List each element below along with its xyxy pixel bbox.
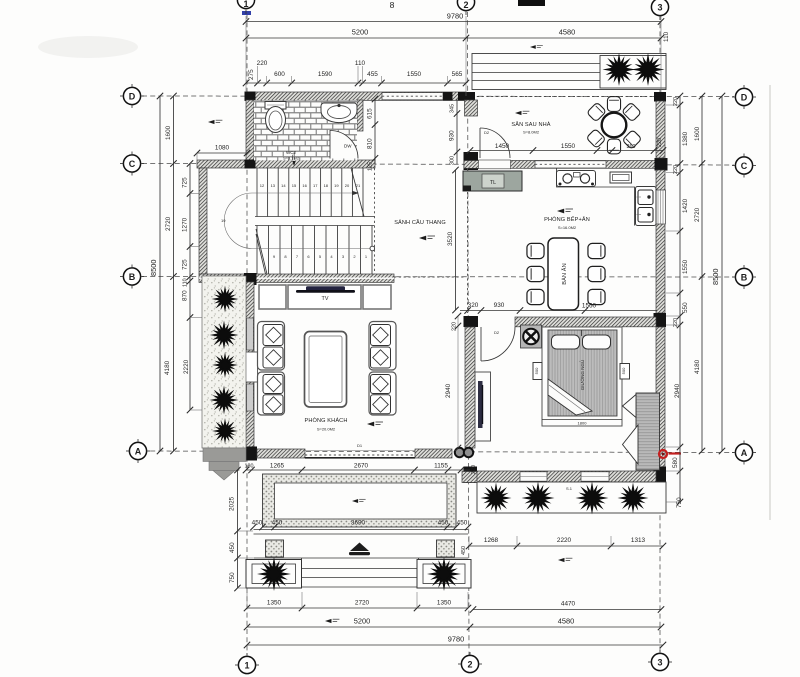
arrow hall — [419, 236, 435, 241]
dim 1450/1550/360/220 yard — [467, 138, 666, 154]
svg-text:2940: 2940 — [445, 383, 452, 398]
yard chair SE — [622, 130, 642, 150]
axis circle A right — [732, 441, 756, 465]
svg-text:DW: DW — [344, 144, 352, 149]
svg-text:4180: 4180 — [164, 360, 171, 375]
counter edge — [557, 169, 635, 226]
svg-text:300: 300 — [450, 156, 456, 165]
plant s2 — [519, 479, 557, 517]
svg-text:A: A — [135, 447, 142, 457]
pier C-grid3 — [655, 158, 668, 171]
TV console left cabinet — [259, 285, 286, 309]
red survey marker — [659, 450, 681, 458]
axis circle D left — [120, 84, 144, 108]
svg-text:WC2: WC2 — [286, 150, 296, 155]
sink WC — [321, 103, 357, 123]
window bedroom south 1 — [520, 472, 547, 481]
axis circle 1 top — [237, 0, 254, 14]
svg-text:1080: 1080 — [215, 145, 230, 152]
svg-text:1590: 1590 — [318, 71, 333, 78]
svg-text:220: 220 — [452, 322, 458, 331]
arrow yard — [515, 111, 529, 115]
svg-text:320: 320 — [468, 302, 479, 309]
svg-text:A: A — [741, 448, 748, 458]
wall C band left (under WC / bump-out top) — [197, 160, 375, 168]
arrow bottom right — [558, 558, 572, 562]
sofa left 1 — [258, 322, 285, 371]
svg-text:1600: 1600 — [694, 126, 701, 141]
svg-text:1600: 1600 — [165, 125, 172, 140]
svg-text:1: 1 — [244, 661, 249, 671]
svg-text:5200: 5200 — [352, 28, 368, 37]
door D2 yard leaf and arc — [480, 128, 510, 158]
stair upper flight treads — [257, 168, 363, 217]
divider dashed stairs/hall — [374, 168, 376, 274]
plant w1 — [209, 283, 240, 314]
svg-text:8500: 8500 — [149, 260, 158, 276]
porch planter left — [246, 560, 302, 589]
sofa right 2 — [369, 372, 396, 415]
column circles at A/grid2 — [455, 448, 473, 457]
coffee table — [305, 332, 347, 408]
axis circle C right — [732, 154, 756, 178]
svg-text:930: 930 — [494, 302, 505, 309]
svg-text:580: 580 — [672, 457, 679, 468]
svg-text:750: 750 — [676, 497, 683, 508]
dim 8500 right — [711, 93, 725, 454]
svg-text:500: 500 — [534, 367, 539, 374]
svg-text:725: 725 — [182, 177, 189, 188]
svg-text:PHÒNG KHÁCH: PHÒNG KHÁCH — [305, 417, 348, 424]
svg-text:S=8.0M2: S=8.0M2 — [523, 130, 540, 135]
svg-text:2670: 2670 — [354, 463, 369, 470]
svg-text:8: 8 — [390, 0, 395, 10]
svg-text:12: 12 — [260, 183, 265, 188]
dim 1080 — [194, 145, 250, 161]
svg-text:110: 110 — [663, 31, 670, 42]
svg-text:1: 1 — [243, 0, 248, 9]
svg-text:1550: 1550 — [682, 259, 689, 274]
svg-text:110: 110 — [183, 278, 189, 287]
plant porch left — [254, 554, 293, 593]
TV console right cabinet — [363, 285, 391, 309]
svg-text:110: 110 — [355, 60, 366, 67]
divider dashed at B — [394, 276, 466, 278]
arrow terrace — [530, 45, 543, 49]
arrow kitchen — [557, 209, 573, 214]
pier bedroom NW — [464, 316, 479, 327]
steps between planters — [302, 558, 419, 587]
svg-text:20: 20 — [345, 183, 350, 188]
entry steps grey SW corner — [203, 448, 246, 480]
dim 1350/2720/1350 — [244, 592, 471, 611]
axis circle B left — [120, 265, 144, 289]
bedroom north wall — [515, 317, 656, 327]
plant s4 — [615, 480, 651, 516]
extension lines top — [246, 16, 661, 96]
svg-text:C: C — [741, 161, 748, 171]
svg-text:220: 220 — [657, 138, 663, 147]
yard chair top — [607, 97, 620, 112]
svg-text:450: 450 — [272, 520, 283, 527]
svg-text:9780: 9780 — [448, 635, 464, 644]
window W living west lower — [247, 384, 254, 411]
svg-text:1380: 1380 — [682, 131, 689, 146]
toilet WC — [265, 102, 286, 133]
planter strip south — [477, 482, 666, 513]
bed pillows — [552, 330, 611, 349]
svg-text:D1: D1 — [357, 443, 363, 448]
svg-text:2720: 2720 — [165, 216, 172, 231]
porch step lines — [254, 530, 469, 559]
sill box west wall — [244, 352, 258, 382]
sofa right 1 — [369, 322, 396, 371]
svg-text:450: 450 — [252, 520, 263, 527]
axis circle 1 bottom — [235, 653, 259, 674]
bedroom TV cabinet — [475, 372, 491, 441]
bed foot line — [542, 419, 622, 421]
arrow WC entry — [292, 155, 295, 166]
plant w3 — [210, 350, 240, 380]
svg-text:3: 3 — [657, 3, 662, 13]
wall B band (bump-out bottom + living top) — [199, 274, 394, 282]
scan streak right — [769, 85, 771, 520]
bed blanket fold — [548, 379, 592, 415]
svg-text:1313: 1313 — [631, 537, 646, 544]
svg-text:2025: 2025 — [229, 496, 236, 511]
pier D window jamb — [443, 92, 453, 101]
svg-text:220: 220 — [673, 318, 679, 327]
svg-text:8500: 8500 — [711, 269, 720, 285]
svg-text:S.1: S.1 — [566, 486, 573, 491]
sofa left 2 — [258, 372, 285, 415]
svg-text:S=20.0M2: S=20.0M2 — [317, 427, 336, 432]
cooktop — [557, 171, 596, 187]
svg-text:450: 450 — [438, 520, 449, 527]
svg-text:21: 21 — [356, 183, 361, 188]
pier D-grid2 — [458, 92, 475, 101]
divider dashed hall/kitchen grid2 — [467, 168, 469, 313]
WC door leaf and arc — [330, 130, 358, 159]
pier B-grid1 — [244, 273, 257, 285]
svg-text:2220: 2220 — [183, 359, 190, 374]
TV console middle — [288, 285, 361, 309]
svg-text:BÀN ĂN: BÀN ĂN — [561, 263, 568, 285]
svg-text:360: 360 — [627, 144, 636, 150]
axis circle D right — [732, 85, 756, 109]
stair walk line — [224, 191, 374, 251]
wall C band right (kitchen north) — [464, 161, 666, 169]
svg-text:125: 125 — [368, 162, 374, 171]
wall D band (north wall WC) — [246, 92, 466, 100]
svg-text:D: D — [129, 92, 136, 102]
svg-text:345: 345 — [450, 104, 456, 113]
wall A band living right part — [415, 449, 452, 458]
door D2 yard opening — [479, 160, 511, 169]
grid line D horizontal — [142, 95, 734, 98]
plant s1 — [478, 480, 514, 516]
dim 4580 bottom — [470, 617, 664, 631]
svg-text:5200: 5200 — [354, 617, 370, 626]
fridge TL — [463, 171, 522, 191]
svg-text:17: 17 — [313, 183, 318, 188]
svg-text:3: 3 — [657, 658, 662, 668]
stair tread numbers lower 9-1 — [273, 254, 368, 259]
window kitchen east wall — [655, 190, 665, 224]
dim 615/810/125 — [367, 96, 379, 171]
plant w4 — [207, 383, 240, 416]
svg-text:455: 455 — [367, 71, 378, 78]
east wall grid3 D-C — [656, 101, 665, 158]
porch planter right — [417, 560, 471, 589]
bedroom south wall — [466, 471, 656, 482]
svg-text:725: 725 — [182, 259, 189, 270]
window in wall C kitchen — [535, 161, 606, 168]
dim 9780 top — [243, 12, 664, 25]
svg-text:750: 750 — [229, 572, 236, 583]
dim chain top detail — [243, 60, 469, 86]
svg-text:615: 615 — [367, 108, 374, 119]
svg-text:1350: 1350 — [267, 600, 282, 607]
svg-text:2720: 2720 — [355, 600, 370, 607]
grid line B horizontal — [142, 276, 734, 279]
svg-text:3690: 3690 — [351, 520, 366, 527]
dim left mid chain — [164, 93, 177, 454]
svg-text:D: D — [741, 93, 748, 103]
svg-text:1270: 1270 — [182, 217, 189, 232]
porch pier left — [266, 540, 284, 557]
yard chair SW — [586, 129, 606, 149]
dim porch left chain — [229, 467, 254, 591]
bedside table right — [620, 364, 630, 380]
stair landing lines — [255, 217, 375, 226]
plant porch right — [424, 554, 463, 593]
stair lower break diagonal — [256, 229, 267, 274]
black bar scan artifact top — [518, 0, 545, 6]
living west wall grid1 B-A — [246, 282, 254, 449]
bed frame — [542, 327, 622, 426]
svg-text:2220: 2220 — [557, 537, 572, 544]
scan smudge top-left — [38, 36, 138, 58]
door D1 opening sill lines — [305, 451, 415, 458]
round dining table yard — [602, 113, 627, 138]
east wall grid3 bedroom — [656, 327, 665, 467]
dim right fine chain — [666, 93, 689, 508]
grid line 1 vertical — [246, 14, 248, 655]
svg-text:TL: TL — [490, 180, 496, 186]
stair lower flight treads — [257, 226, 372, 275]
axis circle 3 bottom — [648, 650, 672, 671]
axis circle 2 bottom — [458, 652, 482, 673]
ceiling fan box — [521, 325, 542, 348]
pier grid2 below D — [465, 100, 478, 116]
svg-text:1268: 1268 — [484, 537, 499, 544]
porch slab stippled frame — [263, 474, 457, 527]
svg-text:1800: 1800 — [578, 421, 588, 426]
dim 5200/4580 top — [243, 28, 670, 43]
plant w2 — [207, 318, 240, 351]
svg-text:450: 450 — [457, 520, 468, 527]
svg-text:1550: 1550 — [407, 71, 422, 78]
svg-text:870: 870 — [182, 290, 189, 301]
grid line A horizontal — [142, 451, 734, 453]
svg-text:275: 275 — [248, 69, 255, 80]
svg-text:13: 13 — [271, 183, 276, 188]
svg-text:1420: 1420 — [682, 198, 689, 213]
svg-text:2: 2 — [467, 660, 472, 670]
svg-text:500: 500 — [621, 367, 626, 374]
svg-text:D2: D2 — [494, 330, 500, 335]
WC east wall — [357, 100, 363, 131]
svg-text:4470: 4470 — [561, 601, 576, 608]
svg-text:3520: 3520 — [447, 231, 454, 246]
bed mattress — [548, 330, 617, 416]
svg-text:14: 14 — [281, 183, 286, 188]
yard chair NE — [622, 102, 642, 122]
svg-text:SÂN SAU NHÀ: SÂN SAU NHÀ — [511, 121, 550, 128]
plant yard 1 — [600, 51, 638, 89]
bedroom door D2 leaf and arc — [481, 327, 515, 361]
svg-text:19: 19 — [334, 183, 339, 188]
west wall grid1 D-C — [246, 100, 254, 161]
svg-text:4180: 4180 — [694, 359, 701, 374]
svg-text:C: C — [129, 159, 136, 169]
dim 345/930/300 grid2 — [449, 99, 461, 165]
bedside table left — [533, 363, 542, 380]
pier bedroom SW — [464, 467, 478, 484]
dining table BAN AN — [548, 238, 579, 310]
svg-text:1550: 1550 — [561, 143, 576, 150]
planter strip west — [202, 276, 246, 448]
dining chair R1 — [588, 243, 605, 258]
plant s3 — [573, 479, 611, 517]
dim 3520 stair hall — [447, 167, 459, 313]
pier A-grid1 — [244, 447, 258, 461]
dining chair L2 — [527, 266, 544, 281]
svg-text:2720: 2720 — [694, 207, 701, 222]
blue scan mark — [242, 11, 251, 15]
svg-text:565: 565 — [452, 71, 463, 78]
svg-text:4580: 4580 — [559, 28, 575, 37]
svg-text:810: 810 — [367, 138, 374, 149]
svg-text:600: 600 — [274, 71, 285, 78]
dim 180/1265/2670/1155 — [243, 463, 477, 475]
svg-text:220: 220 — [257, 60, 268, 67]
svg-text:SẢNH CẦU THANG: SẢNH CẦU THANG — [394, 219, 446, 226]
dim left fine chain — [182, 160, 203, 413]
grid line C horizontal — [142, 164, 734, 166]
svg-text:220: 220 — [471, 465, 477, 474]
stair upper break diagonal — [351, 168, 364, 217]
arrow porch — [352, 499, 366, 503]
counter item — [610, 172, 632, 183]
axis circle B right — [732, 265, 756, 289]
svg-text:180: 180 — [245, 464, 254, 470]
dim 1268/2220/1313 — [461, 536, 666, 555]
arrow upper-left — [208, 120, 222, 124]
svg-text:450: 450 — [229, 542, 236, 553]
window in wall D — [382, 93, 443, 100]
window bedroom south 2 — [581, 472, 609, 481]
east wall grid3 C-B — [656, 170, 665, 313]
bedroom west wall grid2 — [465, 327, 475, 448]
terrace step lines — [472, 54, 666, 90]
svg-text:1560: 1560 — [582, 303, 597, 310]
pier C-grid2 — [464, 152, 479, 170]
dim 220/2940 bedroom west — [445, 313, 461, 451]
open yard boundary dotted at D — [472, 96, 655, 98]
hatch stub left of planter — [462, 472, 477, 483]
svg-text:S=16.0M2: S=16.0M2 — [558, 225, 577, 230]
dining chair L1 — [527, 243, 544, 258]
dining chair L3 — [527, 289, 544, 304]
kitchen sink double — [636, 187, 657, 226]
svg-text:1155: 1155 — [434, 463, 448, 470]
svg-text:2: 2 — [463, 0, 468, 10]
svg-text:9780: 9780 — [447, 12, 463, 21]
svg-text:B: B — [741, 273, 748, 283]
dim 8500 left — [149, 93, 163, 454]
plant yard 2 — [629, 51, 667, 89]
svg-text:1265: 1265 — [270, 463, 285, 470]
WC tiled floor — [254, 100, 357, 160]
dim right mid chain — [694, 93, 705, 454]
yard chair NW — [587, 102, 607, 122]
svg-text:1350: 1350 — [437, 600, 452, 607]
grid line 3 vertical — [659, 15, 661, 652]
wall A band living left part — [257, 449, 305, 458]
svg-text:16: 16 — [302, 183, 307, 188]
dim 450/450/3690/450/450 — [250, 520, 471, 531]
pier D-grid1 — [245, 92, 256, 101]
pier D-grid3 — [654, 92, 666, 102]
svg-text:220: 220 — [673, 165, 679, 174]
svg-text:220: 220 — [673, 97, 679, 106]
dining chair R3 — [588, 289, 605, 304]
TV set — [296, 286, 355, 293]
svg-text:450: 450 — [461, 546, 467, 555]
svg-text:S=3.1M2: S=3.1M2 — [283, 156, 300, 161]
svg-text:15: 15 — [292, 183, 297, 188]
svg-text:550: 550 — [682, 302, 689, 313]
pier bedroom NE corner — [654, 313, 667, 327]
svg-text:1450: 1450 — [495, 143, 510, 150]
svg-text:19: 19 — [221, 218, 226, 223]
yard chair bottom — [607, 139, 620, 154]
dim 9780 bottom — [244, 635, 666, 649]
dim 4470 — [470, 601, 664, 613]
window W living west upper — [247, 318, 254, 350]
svg-text:18: 18 — [324, 183, 329, 188]
wardrobe — [623, 393, 660, 470]
svg-text:4580: 4580 — [558, 617, 574, 626]
axis circle A left — [126, 439, 150, 463]
axis circle 2 top — [457, 0, 474, 15]
svg-text:TV: TV — [322, 296, 329, 302]
axis circle C left — [120, 152, 144, 176]
WC door swing white — [330, 131, 358, 159]
dim 320/930/1560 kitchen bottom — [460, 302, 657, 314]
plant w5 — [210, 416, 240, 446]
axis circle 3 top — [651, 0, 668, 20]
pier C-grid1 — [245, 160, 256, 169]
dim 5200 bottom — [244, 617, 473, 631]
pier A-grid3 — [654, 467, 667, 484]
svg-text:D2: D2 — [484, 130, 490, 135]
porch pier right — [437, 540, 455, 557]
svg-text:B: B — [129, 272, 136, 282]
stair tread numbers upper 12-21 — [260, 183, 361, 188]
